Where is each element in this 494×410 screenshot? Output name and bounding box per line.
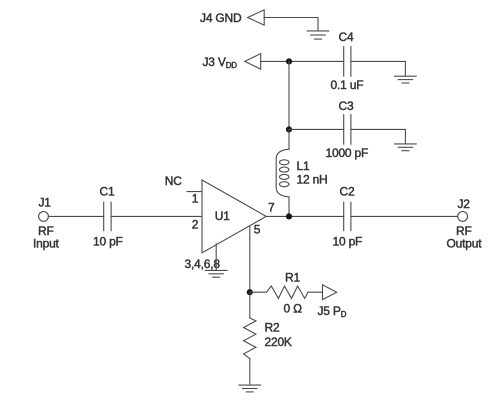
svg-text:J1: J1 bbox=[39, 196, 52, 210]
resistor R2 bbox=[244, 318, 256, 359]
connector J4 arrow bbox=[248, 10, 265, 25]
wire U1 output bbox=[266, 215, 344, 217]
wire U1 pin 5 down bbox=[249, 226, 251, 293]
svg-text:R1: R1 bbox=[285, 270, 300, 284]
svg-text:U1: U1 bbox=[215, 209, 230, 223]
svg-text:Input: Input bbox=[33, 237, 60, 251]
svg-text:2: 2 bbox=[192, 218, 199, 232]
pin 1 stub bbox=[187, 191, 202, 193]
wire junction to C3 bbox=[289, 128, 344, 130]
svg-text:C4: C4 bbox=[339, 30, 354, 44]
svg-text:1: 1 bbox=[192, 191, 199, 205]
svg-text:L1: L1 bbox=[297, 159, 310, 173]
connector J5 arrow bbox=[323, 285, 337, 300]
op-amp U1 bbox=[202, 180, 266, 253]
svg-text:C2: C2 bbox=[340, 185, 355, 199]
inductor L1 bbox=[276, 149, 289, 197]
svg-text:0.1 uF: 0.1 uF bbox=[331, 78, 364, 92]
ground (C3) bbox=[395, 144, 417, 151]
svg-text:3,4,6,8: 3,4,6,8 bbox=[185, 257, 221, 271]
wire J4 to ground bbox=[264, 18, 318, 31]
svg-text:J2: J2 bbox=[458, 197, 471, 211]
svg-text:J3 VDD: J3 VDD bbox=[203, 55, 238, 70]
svg-text:Output: Output bbox=[447, 237, 483, 251]
node PD junction bbox=[247, 289, 253, 295]
svg-text:C1: C1 bbox=[100, 185, 115, 199]
capacitor C3 bbox=[344, 115, 351, 145]
svg-text:R2: R2 bbox=[265, 320, 280, 334]
svg-text:7: 7 bbox=[268, 201, 275, 215]
svg-text:J4 GND: J4 GND bbox=[200, 11, 242, 25]
capacitor C1 bbox=[104, 202, 111, 230]
capacitor C2 bbox=[344, 202, 351, 230]
resistor R1 bbox=[267, 286, 308, 298]
wire R1 to J5 bbox=[308, 291, 323, 293]
wire C1 to U1 pin 2 bbox=[111, 215, 202, 217]
wire C3 to ground bbox=[351, 129, 406, 143]
svg-text:10 pF: 10 pF bbox=[93, 235, 123, 249]
svg-text:12 nH: 12 nH bbox=[297, 172, 328, 186]
wire J1 to C1 bbox=[48, 215, 103, 217]
pin 3,4,6,8 stub to ground bbox=[215, 244, 217, 270]
ground (U1) bbox=[205, 270, 227, 277]
svg-text:0 Ω: 0 Ω bbox=[284, 302, 303, 316]
node VDD junction bbox=[286, 58, 292, 64]
connector J2 bbox=[458, 212, 468, 222]
svg-text:10 pF: 10 pF bbox=[333, 235, 363, 249]
svg-text:1000 pF: 1000 pF bbox=[326, 146, 369, 160]
wire J3 to C4 bbox=[261, 60, 344, 62]
svg-text:NC: NC bbox=[165, 174, 182, 188]
capacitor C4 bbox=[344, 47, 351, 77]
wire L1 to output node bbox=[288, 197, 290, 217]
wire junction to R2 bbox=[249, 292, 251, 318]
svg-text:220K: 220K bbox=[265, 335, 292, 349]
ground (C4) bbox=[395, 76, 417, 83]
wire C2 to J2 bbox=[351, 215, 458, 217]
connector J1 bbox=[39, 212, 49, 222]
svg-text:5: 5 bbox=[254, 223, 261, 237]
node output junction bbox=[286, 213, 292, 219]
wire VDD rail down bbox=[288, 61, 290, 129]
svg-text:C3: C3 bbox=[339, 99, 354, 113]
connector J3 arrow bbox=[245, 54, 261, 70]
ground (J4) bbox=[307, 31, 329, 39]
node C3 junction bbox=[286, 126, 292, 132]
wire C4 to ground bbox=[351, 61, 406, 75]
wire C3 node to L1 bbox=[288, 129, 290, 149]
svg-text:J5 PD: J5 PD bbox=[318, 304, 347, 319]
wire R2 to ground bbox=[249, 359, 251, 385]
wire junction to R1 bbox=[250, 291, 267, 293]
ground (R2) bbox=[239, 385, 261, 392]
